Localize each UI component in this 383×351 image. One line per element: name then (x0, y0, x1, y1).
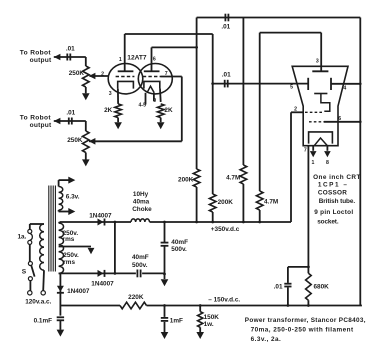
svg-text:1: 1 (119, 57, 122, 63)
svg-text:output: output (30, 122, 52, 129)
svg-text:– 150v.d.c.: – 150v.d.c. (208, 297, 240, 304)
svg-text:6.3v., 2a.: 6.3v., 2a. (251, 336, 281, 343)
svg-text:S: S (22, 269, 27, 276)
svg-text:250v.: 250v. (63, 252, 79, 259)
svg-text:5: 5 (290, 84, 293, 90)
svg-text:2: 2 (294, 107, 297, 113)
svg-text:3: 3 (316, 58, 319, 64)
svg-text:250K: 250K (69, 70, 85, 77)
svg-text:680K: 680K (314, 283, 330, 290)
svg-text:rms: rms (63, 236, 75, 243)
svg-text:10Hy: 10Hy (133, 191, 149, 198)
svg-text:.01: .01 (66, 45, 75, 52)
svg-text:1CP1 –: 1CP1 – (318, 181, 347, 188)
svg-text:2: 2 (101, 72, 104, 78)
svg-text:200K: 200K (218, 199, 234, 206)
svg-text:9 pin Loctol: 9 pin Loctol (314, 209, 353, 216)
svg-text:Power transformer, Stancor PC8: Power transformer, Stancor PC8403, (245, 317, 366, 324)
svg-text:.01: .01 (274, 283, 283, 290)
svg-text:COSSOR: COSSOR (318, 190, 347, 197)
svg-text:150K: 150K (204, 314, 220, 321)
svg-text:6: 6 (153, 57, 156, 63)
svg-text:40mF: 40mF (132, 254, 149, 261)
svg-text:3: 3 (109, 91, 112, 97)
svg-text:output: output (30, 57, 52, 64)
svg-text:0.1mF: 0.1mF (34, 318, 53, 325)
svg-text:socket.: socket. (317, 218, 339, 225)
svg-text:.01: .01 (222, 71, 231, 78)
svg-text:200K: 200K (178, 177, 194, 184)
svg-text:2K: 2K (104, 107, 113, 114)
svg-text:1N4007: 1N4007 (89, 213, 112, 220)
svg-text:1a.: 1a. (18, 233, 27, 240)
svg-text:Choke: Choke (132, 206, 152, 213)
svg-text:1mF: 1mF (170, 318, 183, 325)
svg-text:120v.a.c.: 120v.a.c. (25, 298, 51, 305)
svg-text:40mF: 40mF (171, 239, 188, 246)
svg-text:1N4007: 1N4007 (67, 288, 90, 295)
svg-text:4-5: 4-5 (139, 103, 147, 109)
svg-text:rms: rms (63, 259, 75, 266)
svg-text:One inch CRT: One inch CRT (313, 174, 360, 181)
svg-text:1w.: 1w. (204, 321, 214, 328)
svg-text:1N4007: 1N4007 (91, 280, 114, 287)
svg-text:To Robot: To Robot (20, 115, 52, 122)
svg-text:.01: .01 (66, 110, 75, 117)
svg-text:250K: 250K (67, 137, 83, 144)
svg-text:4.7M: 4.7M (264, 198, 278, 205)
svg-text:6.3v.: 6.3v. (66, 193, 80, 200)
svg-text:.01: .01 (221, 23, 230, 30)
svg-text:To Robot: To Robot (20, 50, 52, 57)
svg-text:500v.: 500v. (132, 262, 148, 269)
svg-text:1: 1 (311, 160, 314, 166)
svg-text:7: 7 (165, 71, 168, 77)
svg-text:220K: 220K (128, 294, 144, 301)
svg-text:2K: 2K (164, 107, 173, 114)
svg-text:4.7M: 4.7M (226, 175, 240, 182)
svg-text:British tube.: British tube. (319, 198, 356, 205)
svg-text:12AT7: 12AT7 (127, 54, 147, 61)
svg-text:500v.: 500v. (171, 246, 187, 253)
svg-text:9: 9 (153, 98, 156, 104)
svg-text:4: 4 (343, 86, 346, 92)
svg-text:6: 6 (338, 116, 341, 122)
svg-text:8: 8 (326, 160, 329, 166)
svg-text:+350v.d.c: +350v.d.c (211, 226, 240, 233)
svg-text:40ma: 40ma (133, 199, 150, 206)
svg-text:7: 7 (304, 148, 307, 154)
svg-text:70ma, 250-0-250 with filament: 70ma, 250-0-250 with filament (251, 327, 354, 334)
